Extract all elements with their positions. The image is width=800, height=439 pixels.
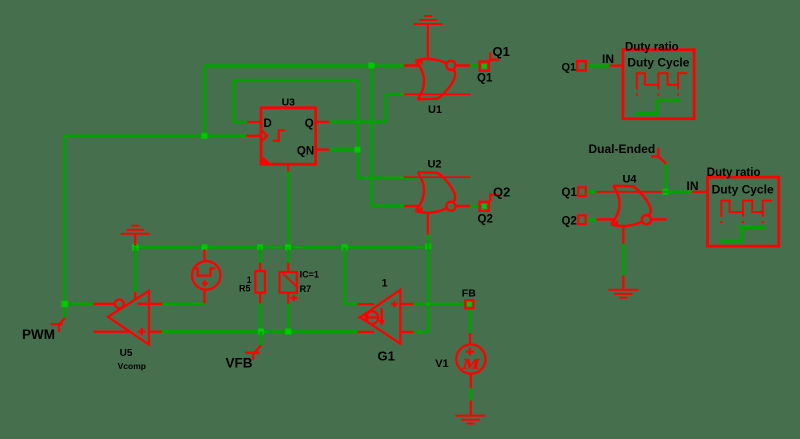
duty cycle box X1	[623, 50, 694, 119]
wire D riser	[232, 80, 235, 122]
tie marker VFB	[245, 345, 261, 359]
svg-text:U1: U1	[428, 104, 442, 116]
resistor R7	[280, 263, 298, 304]
wire R5 top	[259, 247, 262, 263]
svg-text:Q2: Q2	[562, 216, 577, 228]
junction node QN	[355, 147, 361, 153]
svg-text:G1: G1	[378, 348, 395, 363]
svg-text:QN: QN	[297, 145, 314, 157]
wire middle rail y247	[135, 246, 428, 249]
wire U2 bottom red	[427, 212, 429, 235]
pad FB	[465, 300, 473, 308]
wire R5 bottom	[259, 303, 262, 332]
wire U1 out	[470, 64, 480, 67]
wire U4 Q2 pad	[585, 218, 597, 221]
pad Q1 at U4	[578, 187, 585, 196]
wire pulse bottom to comparator minus	[162, 302, 205, 305]
wire riser x204	[203, 66, 206, 136]
ground below U4	[608, 275, 638, 297]
label M inside motor	[461, 355, 480, 371]
svg-text:Dual-Ended: Dual-Ended	[589, 142, 656, 156]
ground below V1	[455, 401, 485, 424]
wire D loop drop x357	[356, 80, 359, 178]
wire G1 bottom out	[413, 330, 428, 333]
wire IN pin box1	[610, 64, 623, 66]
tie marker Dual-Ended	[651, 148, 666, 164]
junction rail-G1	[342, 244, 348, 250]
wire V1 to ground	[469, 388, 472, 400]
wire top horizontal	[204, 64, 406, 67]
wire R7 top	[287, 247, 290, 263]
junction rail-R5	[257, 244, 263, 250]
junction rail-pulse	[202, 244, 208, 250]
svg-text:D: D	[264, 118, 272, 130]
wire D loop top	[234, 79, 358, 82]
nor gate U2	[404, 172, 471, 212]
wire U2 out	[470, 205, 480, 208]
svg-text:FB: FB	[462, 288, 476, 300]
svg-text:U5: U5	[120, 348, 133, 359]
wire IN pad top	[586, 64, 610, 67]
ground left above comparator	[121, 226, 150, 246]
wire Dual-Ended drop	[664, 164, 667, 192]
svg-text:M: M	[461, 355, 480, 371]
wire Q to U1 lower input	[386, 93, 406, 96]
svg-text:Duty Cycle: Duty Cycle	[627, 55, 689, 69]
wire U2 drop to G1	[427, 235, 430, 332]
svg-text:V1: V1	[435, 358, 448, 370]
wire R7 bottom	[287, 304, 290, 332]
svg-text:Q1: Q1	[493, 44, 510, 59]
svg-text:Q1: Q1	[562, 62, 577, 74]
flip-flop U3	[246, 108, 329, 172]
duty cycle box X2	[708, 177, 779, 246]
wire ground drop to comparator top pin	[134, 247, 137, 292]
nor gate U1	[404, 59, 471, 99]
svg-text:1: 1	[382, 278, 388, 290]
resistor R5	[255, 263, 265, 304]
wire PWM stub to comparator	[65, 302, 94, 305]
junction node PWM	[62, 301, 68, 307]
dependent source G1	[358, 290, 414, 344]
wire U4 Q1 pad	[585, 190, 597, 193]
wire U4 drop to ground	[622, 244, 625, 276]
svg-text:VFB: VFB	[226, 356, 253, 371]
wire G1 plus horizontal	[345, 302, 359, 305]
svg-text:U3: U3	[282, 96, 296, 108]
tie marker PWM	[51, 318, 65, 332]
svg-text:U2: U2	[427, 159, 441, 171]
junction rail-U2drop	[425, 243, 431, 249]
junction bottom-R7	[285, 329, 291, 335]
svg-text:Duty ratio: Duty ratio	[625, 41, 679, 53]
comparator U5	[94, 291, 163, 345]
svg-text:Q2: Q2	[493, 184, 510, 199]
svg-text:IN: IN	[602, 52, 614, 66]
junction Dual-Ended	[663, 189, 669, 195]
wire U4 out to IN	[663, 190, 692, 193]
wire Q output	[329, 120, 385, 123]
wire to U2 upper input	[358, 176, 417, 179]
wire bottom rail y331	[162, 330, 358, 333]
junction node at 204,136	[201, 133, 207, 139]
pulse source	[192, 249, 220, 303]
svg-text:Vcomp: Vcomp	[118, 361, 146, 371]
nor gate U4	[597, 186, 667, 226]
junction rail-ground	[132, 244, 139, 251]
wire D input	[234, 121, 248, 124]
svg-text:Q: Q	[305, 118, 314, 130]
pad Q2 at U4	[578, 215, 585, 224]
svg-text:R7: R7	[300, 284, 312, 294]
svg-text:Q1: Q1	[562, 187, 578, 199]
svg-text:U4: U4	[622, 174, 637, 186]
wire Q riser	[384, 94, 387, 122]
wire clock horizontal	[65, 134, 247, 137]
wire FF bottom to rail	[287, 170, 290, 247]
svg-text:Q2: Q2	[478, 214, 493, 226]
junction bottom-VFB	[258, 329, 264, 335]
wire G1 plus riser	[343, 247, 346, 304]
svg-text:R5: R5	[239, 284, 251, 294]
wire G1 out to FB	[413, 302, 465, 305]
svg-text:IN: IN	[687, 179, 699, 193]
wire drop x371	[370, 66, 373, 206]
svg-text:Duty Cycle: Duty Cycle	[712, 183, 774, 197]
svg-text:Duty ratio: Duty ratio	[707, 167, 761, 179]
junction node at 371,65	[368, 63, 374, 69]
wire QN output	[329, 148, 357, 151]
motor source V1	[456, 333, 485, 388]
wire VFB drop	[259, 332, 262, 346]
wire to U2 lower input	[371, 204, 406, 207]
wire FB pad down	[469, 308, 472, 334]
svg-text:IC=1: IC=1	[300, 269, 319, 279]
junction rail-R7	[285, 244, 291, 250]
wire net A vertical left	[63, 136, 66, 319]
wire IN pin box2	[692, 191, 707, 193]
wire U4 bottom red	[622, 226, 624, 244]
pad Q2 output	[480, 193, 499, 211]
pad Q1 output	[480, 52, 500, 70]
ground top above U1	[414, 16, 443, 61]
pad Q1 to IN (top right)	[577, 61, 586, 70]
svg-text:Q1: Q1	[477, 73, 493, 85]
svg-text:PWM: PWM	[22, 327, 55, 342]
